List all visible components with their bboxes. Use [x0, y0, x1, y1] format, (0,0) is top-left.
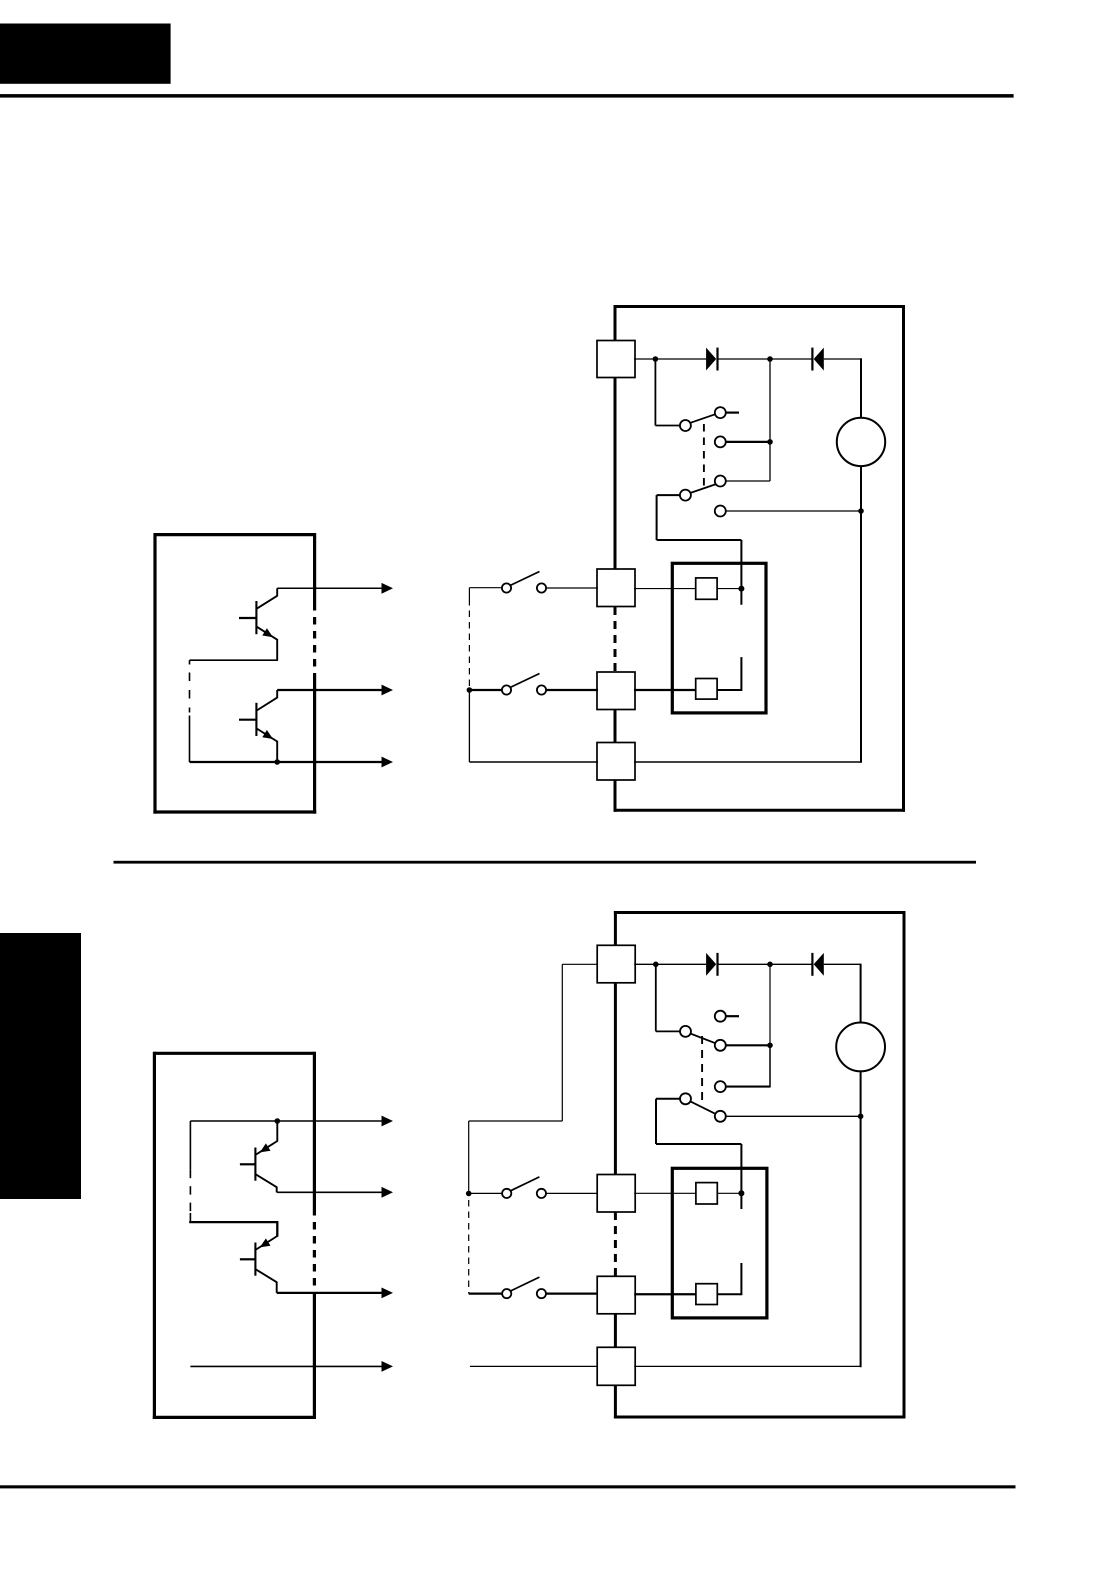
- lower external circuit box left edge segment 3: [614, 1314, 617, 1348]
- transistor Q1 collector diagonal: [256, 596, 277, 609]
- wire fourth contact to lamp branch (lower): [726, 1115, 861, 1117]
- wire output AL2 (lower row 3, bold): [277, 1292, 382, 1294]
- transistor Q2 collector vertical: [276, 690, 278, 698]
- transistor Q3 collector diagonal: [255, 1174, 277, 1187]
- wire terminal AL1 to node (upper): [634, 358, 656, 360]
- transistor Q1 emitter vertical: [276, 639, 278, 660]
- wire fourth contact to lamp branch (upper): [726, 510, 861, 512]
- left bus bold horizontal (lower): [189, 1221, 277, 1223]
- upper external circuit box left edge dashed segment: [614, 607, 617, 672]
- transistor Q4 base lead: [240, 1258, 256, 1260]
- wire output 11 (upper row 1): [277, 587, 382, 589]
- diode D2 cathode bar (upper): [811, 348, 813, 371]
- wire output AL1 (lower row 2): [277, 1191, 382, 1193]
- wire to load switch 2 (upper, bold): [469, 689, 502, 691]
- wire terminal 11 to relay contact (upper): [634, 588, 696, 590]
- transistor Q4 collector vertical: [276, 1282, 278, 1293]
- load switch SW1 right contact (lower): [537, 1189, 546, 1198]
- wire branch to third contact (upper): [726, 480, 770, 482]
- diode D3 cathode bar (lower): [716, 953, 718, 976]
- lower inverter box right edge lower solid: [313, 1295, 316, 1419]
- upper external circuit box left edge segment 2: [614, 378, 617, 570]
- left bus solid vertical (lower): [189, 1121, 191, 1170]
- changeover second blade (upper): [691, 484, 716, 493]
- wire common row right of CM2 (upper): [634, 761, 861, 763]
- transistor Q1 emitter diagonal: [256, 626, 277, 640]
- transistor Q1 base lead: [239, 617, 256, 619]
- transistor Q2 base lead: [239, 719, 256, 721]
- link dashed vertical between load switches (lower): [468, 1200, 470, 1294]
- wire middle contact to node B branch (lower, bold): [726, 1044, 770, 1046]
- mid-page section rule: [114, 861, 977, 864]
- wire middle contact to node B branch (upper, bold): [726, 441, 770, 443]
- lower terminal AL0 (square): [597, 945, 635, 983]
- junction dot middle contact branch (upper): [767, 439, 773, 445]
- left bus solid end (lower): [189, 1213, 191, 1222]
- arrow output 12: [382, 685, 394, 696]
- changeover second arm pivot (upper): [680, 490, 691, 501]
- wire to load switch 2 (lower, bold): [469, 1292, 503, 1294]
- transistor Q3 emitter diagonal: [256, 1141, 277, 1155]
- junction dot lamp branch (upper): [858, 508, 864, 514]
- wire AL0 branch down to switch bus (lower): [468, 1121, 470, 1194]
- relay link down to contact point (upper): [740, 540, 742, 605]
- wire node A down to contact arm (lower): [655, 964, 657, 1031]
- relay link vertical (lower): [655, 1099, 657, 1144]
- upper inverter box right edge dashed: [313, 603, 316, 678]
- junction dot switch bus (lower): [466, 1191, 472, 1197]
- relay link vertical (upper): [656, 495, 658, 540]
- changeover arm pivot contact (lower): [680, 1026, 691, 1037]
- lower inverter box left edge: [153, 1052, 156, 1419]
- diode D3 triangle (lower): [706, 953, 716, 976]
- diode D4 triangle (lower): [814, 953, 824, 976]
- wire terminal AL2 to relay contact bottom (lower, bold): [634, 1293, 696, 1295]
- relay link horizontal (lower): [656, 1143, 741, 1145]
- lower external circuit box left edge dashed segment: [614, 1212, 617, 1276]
- relay coil contact square bottom (upper): [696, 679, 717, 700]
- lower external circuit box top edge: [614, 911, 904, 914]
- transistor Q2 collector diagonal: [256, 698, 277, 711]
- arrow output AL0: [382, 1116, 394, 1127]
- upper external circuit box right edge: [902, 305, 905, 812]
- transistor Q2 base bar: [255, 703, 257, 736]
- transistor Q3 emitter vertical: [276, 1121, 278, 1142]
- changeover NC contact (lower): [715, 1011, 726, 1022]
- changeover second arm pivot (lower): [680, 1093, 691, 1104]
- load switch SW2 blade (lower): [511, 1277, 540, 1291]
- wire lamp to common (upper): [860, 466, 862, 763]
- lower external circuit box left edge segment 4: [614, 1386, 617, 1419]
- relay NO stub vertical (upper): [740, 657, 742, 691]
- bottom rule: [0, 1485, 1016, 1488]
- load switch SW2 left contact (upper): [502, 685, 511, 694]
- upper external circuit box left edge segment 4: [614, 780, 617, 812]
- changeover blade (upper): [690, 414, 715, 423]
- upper external circuit box left edge segment 3: [614, 709, 617, 743]
- junction dot Q2 emitter at common: [274, 759, 280, 765]
- relay coil contact square top (lower): [696, 1183, 717, 1204]
- left bus dash-dot vertical (upper): [189, 660, 191, 664]
- relay NO stub horizontal (upper): [717, 689, 741, 691]
- lower inverter box right edge dashed: [313, 1208, 316, 1295]
- arrow common CM2: [382, 757, 394, 768]
- changeover NC stub (lower): [726, 1015, 739, 1017]
- transistor Q3 collector vertical: [276, 1187, 278, 1193]
- transistor Q1 collector vertical: [276, 588, 278, 596]
- wire load bus down (upper): [468, 690, 470, 762]
- transistor Q4 emitter arrow: [260, 1238, 271, 1247]
- left bus dashed vertical (lower): [189, 1170, 191, 1213]
- wire arm pivot 2 to relay link (lower): [656, 1098, 681, 1100]
- relay RY box (lower): [672, 1168, 767, 1318]
- wire SW1 to terminal AL1 (lower): [546, 1192, 598, 1194]
- wire terminal AL0 to node (lower): [634, 963, 656, 965]
- wire terminal AL1 to relay contact (lower): [634, 1192, 696, 1194]
- relay coil contact square bottom (lower): [696, 1284, 717, 1305]
- lower external circuit box left edge segment 1: [614, 911, 617, 945]
- wire output row 4 (lower): [190, 1365, 382, 1367]
- diode D4 cathode bar (lower): [811, 953, 813, 976]
- load switch SW1 right contact (upper): [537, 583, 546, 592]
- wire to Q4 emitter (lower, bold): [276, 1221, 278, 1237]
- arrow output AL1: [382, 1187, 394, 1198]
- wire to load switch 1 (upper): [469, 587, 502, 589]
- wire AL0 into terminal (lower): [562, 963, 598, 965]
- junction dot A (lower): [653, 962, 659, 968]
- wire output 12 (upper row 2, bold): [277, 689, 382, 691]
- transistor Q3 base bar: [254, 1148, 256, 1181]
- wire relay contact to common point (upper): [717, 588, 741, 590]
- left bus solid vertical (upper): [189, 716, 191, 763]
- relay NO stub horizontal (lower): [717, 1293, 741, 1295]
- wire D3 to node B (lower): [718, 963, 770, 965]
- wire Q1 emitter to left bus: [190, 659, 278, 661]
- changeover middle contact (upper): [715, 436, 726, 447]
- changeover fourth contact (lower): [715, 1111, 726, 1122]
- wire SW2 to terminal 12 (bold): [546, 689, 598, 691]
- transistor Q3 emitter arrow: [260, 1143, 271, 1152]
- upper terminal 11 (square): [597, 569, 635, 607]
- junction dot B (lower): [767, 962, 773, 968]
- wire output AL0 (lower row 1): [190, 1120, 382, 1122]
- wire load bus to terminal CM2 (upper): [469, 761, 598, 763]
- load switch SW1 left contact (upper): [502, 583, 511, 592]
- junction dot relay common (lower): [738, 1190, 744, 1196]
- wire AL0 external horizontal (lower): [469, 1120, 563, 1122]
- wire relay contact to common point (lower): [717, 1192, 741, 1194]
- upper terminal AL1 (square): [597, 341, 635, 378]
- upper external circuit box left edge segment 1: [614, 305, 617, 341]
- arrow output row 4: [382, 1361, 394, 1372]
- junction dot relay common (upper): [738, 586, 744, 592]
- upper inverter box left edge: [153, 533, 156, 814]
- transistor Q4 collector diagonal: [255, 1269, 277, 1282]
- load switch SW2 blade (upper): [510, 674, 539, 688]
- upper terminal CM2 (square): [597, 743, 635, 781]
- top rule: [0, 94, 1014, 98]
- arrow output AL2: [382, 1288, 394, 1299]
- wire lamp to common (lower): [860, 1071, 862, 1367]
- upper inverter box top edge: [155, 533, 315, 536]
- transistor Q1 emitter arrow: [262, 628, 273, 637]
- wire node B to diode D4 (lower): [770, 963, 812, 965]
- wire branch to third contact (lower): [726, 1086, 770, 1088]
- diode D1 cathode bar (upper): [716, 348, 718, 371]
- transistor Q2 emitter vertical: [276, 741, 278, 762]
- wire AL0 external vertical (lower): [561, 964, 563, 1121]
- changeover third contact (upper): [715, 476, 726, 487]
- junction dot A (upper): [653, 356, 659, 362]
- wire to arm pivot (lower): [656, 1030, 681, 1032]
- junction dot Q3 emitter (lower): [275, 1118, 281, 1124]
- lower external circuit box left edge segment 2: [614, 983, 617, 1175]
- relay RY box (upper): [672, 563, 766, 713]
- wire D4 to lamp branch (lower): [824, 963, 861, 965]
- transistor Q4 emitter diagonal: [256, 1236, 277, 1250]
- transistor Q4 base bar: [254, 1243, 256, 1276]
- load switch SW1 left contact (lower): [502, 1189, 511, 1198]
- wire node A to diode D3 (lower): [656, 963, 707, 965]
- wire to arm pivot (upper): [655, 425, 680, 427]
- lower inverter box top edge: [154, 1052, 314, 1055]
- transistor Q1 base bar: [255, 601, 257, 634]
- load switch SW2 right contact (upper): [537, 685, 546, 694]
- lower external circuit box right edge: [903, 911, 906, 1419]
- wire common row right of CM2 (lower): [634, 1365, 860, 1367]
- wire node A to diode D1 (upper): [655, 358, 706, 360]
- load switch SW2 left contact (lower): [502, 1289, 511, 1298]
- changeover NC stub (upper): [726, 412, 739, 414]
- load switch SW1 blade (lower): [511, 1177, 540, 1191]
- wire SW1 to terminal 11: [546, 587, 598, 589]
- load switch SW2 right contact (lower): [537, 1289, 546, 1298]
- relay coil contact square top (upper): [696, 578, 717, 599]
- transistor Q2 emitter arrow: [262, 730, 273, 739]
- left side black tab: [0, 933, 81, 1199]
- changeover mechanical link dashed (upper): [703, 424, 705, 487]
- lower inverter box bottom edge: [153, 1416, 316, 1419]
- wire node A down to contact arm (upper): [654, 359, 656, 426]
- wire down to lamp (upper): [860, 358, 862, 418]
- diode D1 triangle (upper): [706, 348, 716, 371]
- lower inverter box right edge upper solid: [313, 1052, 316, 1208]
- junction dot load bus (upper): [467, 687, 473, 693]
- lamp/load M (lower circle): [836, 1023, 885, 1072]
- wire node B branch vertical (lower): [769, 964, 771, 1045]
- junction dot middle contact branch (lower): [767, 1043, 773, 1049]
- upper inverter box right edge lower solid: [313, 678, 316, 814]
- wire D2 to lamp branch (upper): [824, 358, 861, 360]
- upper inverter box right edge upper solid: [313, 533, 316, 603]
- changeover second blade (lower): [690, 1101, 714, 1113]
- wire node B to diode D2 (upper): [770, 358, 812, 360]
- changeover NC contact (upper): [715, 407, 726, 418]
- junction dot B (upper): [767, 356, 773, 362]
- wire arm pivot 2 to relay link (upper): [657, 494, 681, 496]
- link dashed vertical between load switches (upper): [468, 588, 470, 599]
- transistor Q3 base lead: [240, 1163, 256, 1165]
- lamp/load M (upper circle): [837, 418, 885, 466]
- lower terminal CM2 (square): [597, 1347, 635, 1385]
- wire down to lamp (lower): [860, 964, 862, 1023]
- lower terminal AL1 (square): [597, 1175, 635, 1213]
- changeover arm pivot contact (upper): [680, 420, 691, 431]
- relay link horizontal (upper): [657, 539, 742, 541]
- changeover fourth contact (upper): [715, 506, 726, 517]
- wire node B branch vertical (upper): [769, 359, 771, 481]
- changeover third contact (lower): [715, 1081, 726, 1092]
- page header black bar: [0, 24, 171, 84]
- upper terminal 12 (square): [597, 672, 635, 710]
- wire terminal 12 to relay contact bottom (upper, bold): [634, 689, 696, 691]
- wire row 4 to terminal CM2 (lower): [470, 1365, 598, 1367]
- wire to load switch 1 (lower): [469, 1192, 503, 1194]
- upper external circuit box bottom edge: [614, 809, 906, 812]
- changeover mechanical link dashed (lower): [701, 1036, 703, 1105]
- changeover middle contact (lower): [715, 1040, 726, 1051]
- wire SW2 to terminal AL2 (lower, bold): [546, 1292, 598, 1294]
- wire D1 to node B (upper): [718, 358, 770, 360]
- arrow output 11: [382, 583, 394, 594]
- junction dot lamp branch (lower): [858, 1114, 864, 1120]
- load switch SW1 blade (upper): [510, 572, 539, 586]
- relay link down to contact point (lower): [740, 1144, 742, 1209]
- diode D2 triangle (upper): [814, 348, 824, 371]
- lower external circuit box bottom edge: [614, 1416, 906, 1419]
- lower terminal AL2 (square): [597, 1276, 635, 1314]
- wire common CM2 (upper row 3, bold): [190, 761, 383, 763]
- changeover blade (lower): [691, 1034, 716, 1044]
- upper external circuit box top edge: [614, 305, 904, 308]
- relay NO stub vertical (lower): [740, 1263, 742, 1295]
- transistor Q2 emitter diagonal: [256, 728, 277, 742]
- upper inverter box bottom edge: [153, 810, 316, 813]
